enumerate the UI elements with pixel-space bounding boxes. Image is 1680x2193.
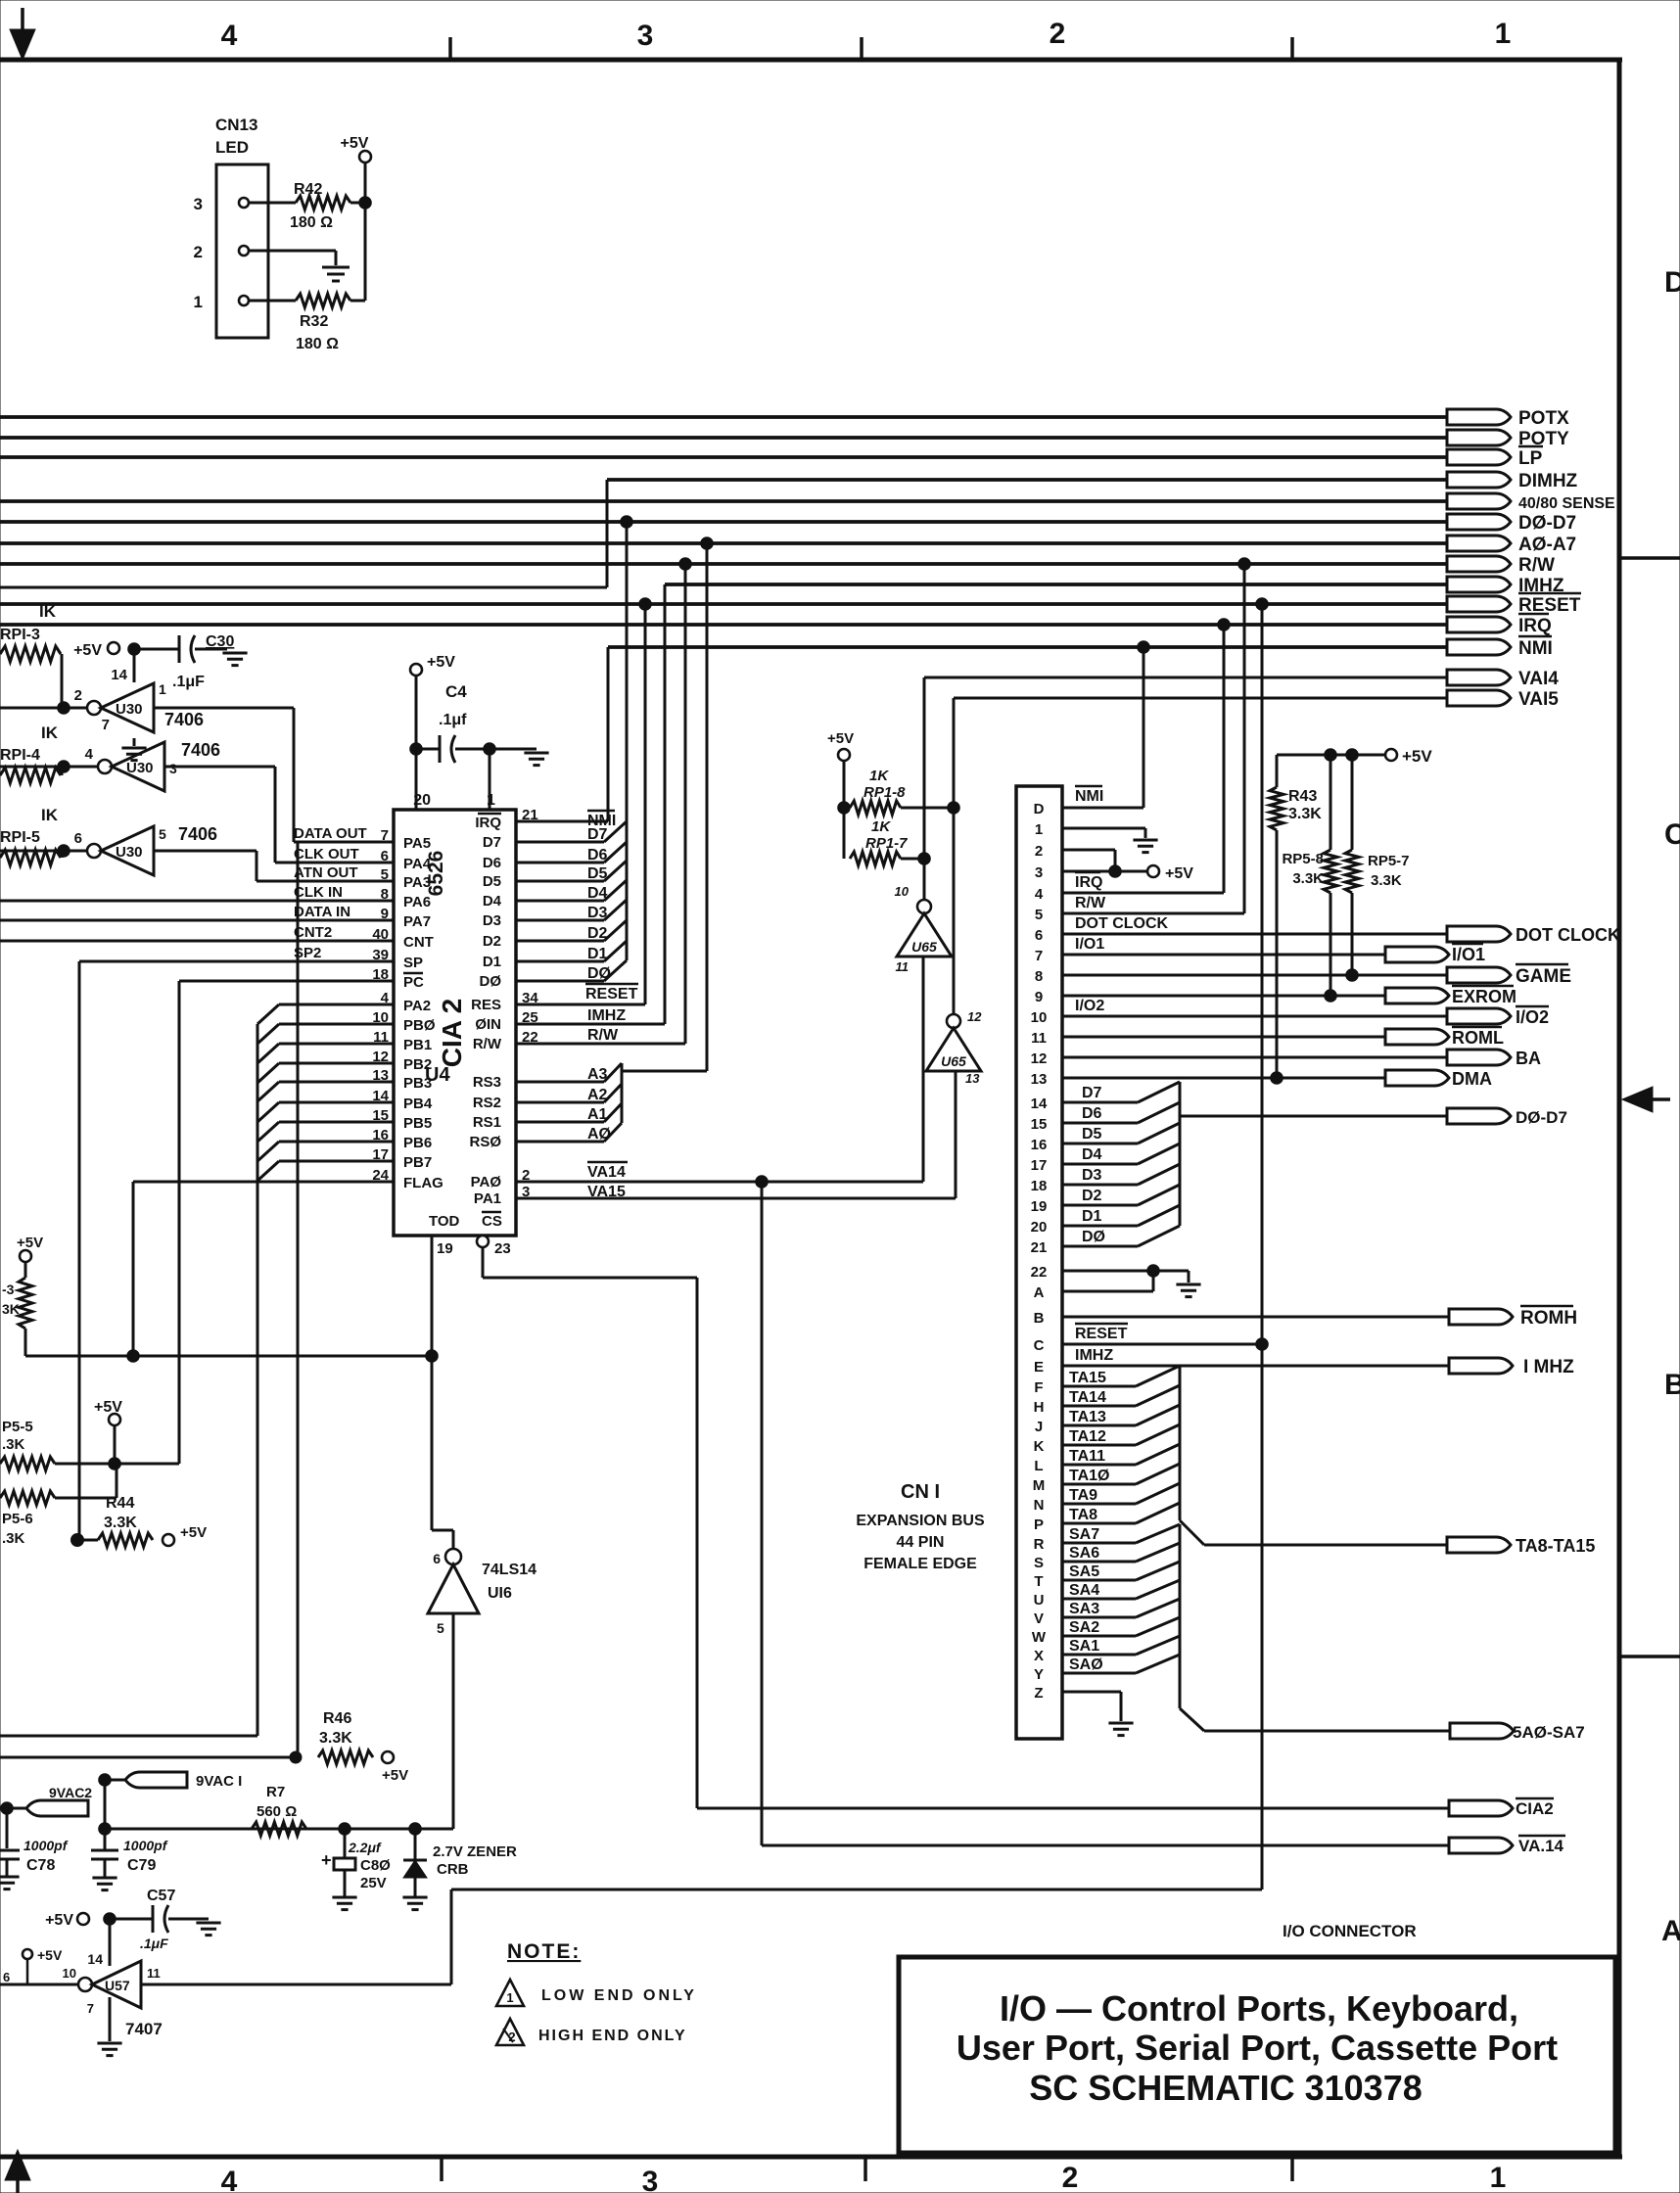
wire PB row 1126 xyxy=(279,1101,394,1104)
svg-text:TA9: TA9 xyxy=(1069,1487,1097,1504)
svg-text:RP1-8: RP1-8 xyxy=(863,784,906,801)
ground (C80) xyxy=(332,1897,356,1910)
wire CN1 SA bus vertical xyxy=(1179,1524,1182,1708)
svg-text:TA1Ø: TA1Ø xyxy=(1069,1468,1109,1484)
wire FLAG pin24 xyxy=(133,1181,394,1184)
connector arrow GAME xyxy=(1447,967,1511,983)
svg-text:CS: CS xyxy=(482,1213,502,1230)
wire R/W row xyxy=(516,1043,685,1046)
svg-text:PA2: PA2 xyxy=(403,998,431,1014)
wire PB row 1066 xyxy=(279,1043,394,1046)
resistor RP5-5 xyxy=(0,1457,55,1470)
svg-text:3.3K: 3.3K xyxy=(319,1730,352,1747)
wire CN1 D row 1126 xyxy=(1062,1101,1138,1104)
svg-text:VAI4: VAI4 xyxy=(1518,669,1559,689)
bus diagonal CN1 D7 xyxy=(1138,1082,1180,1102)
connector arrow NMI xyxy=(1447,639,1511,655)
wire RP1-5 to inverter xyxy=(61,851,64,858)
wire U30 b output xyxy=(0,766,98,769)
svg-text:RS3: RS3 xyxy=(473,1074,501,1091)
ground (C4) xyxy=(524,753,548,766)
wire +5V down to R32 xyxy=(364,163,367,301)
wire CN1 pin 7 IO1 xyxy=(1062,954,1385,957)
wire 9VAC2 stub xyxy=(7,1807,26,1810)
svg-text:7406: 7406 xyxy=(164,710,204,729)
wire NMI bus xyxy=(608,645,1447,649)
wire CN1 pin 4 IRQ xyxy=(1062,892,1224,895)
svg-text:PA1: PA1 xyxy=(474,1190,501,1207)
resistor R46 xyxy=(318,1750,373,1764)
wire A bus vertical xyxy=(706,543,709,1071)
wire +5V to C57 xyxy=(116,1918,153,1921)
junction SP2/R44 xyxy=(71,1534,84,1547)
wire CN1 TA row 1436 xyxy=(1062,1405,1136,1408)
connector arrow DIMHZ xyxy=(1447,472,1511,488)
wire C4 ground stem xyxy=(490,748,537,751)
junction RP1-8/VA15 xyxy=(948,802,960,815)
wire NMI vertical (CIA pin21) xyxy=(607,647,610,821)
power +5V (C4) xyxy=(410,664,422,676)
wire CN1 D row 1252 xyxy=(1062,1225,1138,1228)
wire CLK OUT xyxy=(275,862,394,864)
wire CN1 pin Z xyxy=(1062,1691,1121,1694)
wire RP5-7 top xyxy=(1351,755,1354,850)
wire PB row 1046 xyxy=(279,1023,394,1026)
svg-text:TA13: TA13 xyxy=(1069,1409,1106,1425)
svg-text:1: 1 xyxy=(506,1990,513,2005)
svg-text:+5V: +5V xyxy=(427,654,455,671)
svg-text:D7: D7 xyxy=(483,834,501,851)
wire CN1 D row 1273 xyxy=(1062,1245,1138,1248)
svg-text:4: 4 xyxy=(221,2166,238,2193)
junction R/W/CN1 xyxy=(1238,558,1251,571)
svg-text:5AØ-SA7: 5AØ-SA7 xyxy=(1513,1723,1585,1742)
connector arrow ROMH xyxy=(1449,1309,1513,1325)
ground (CN1 22/A) xyxy=(1176,1284,1200,1297)
wire RP5-8 bottom xyxy=(1330,893,1332,996)
bus diagonal CN1 TA13 xyxy=(1136,1405,1180,1425)
svg-text:CLK IN: CLK IN xyxy=(294,884,343,901)
svg-text:ROMH: ROMH xyxy=(1520,1308,1577,1329)
power +5V (R46) xyxy=(382,1751,394,1763)
svg-text:+5V: +5V xyxy=(341,135,369,152)
wire IRQ to CN1 xyxy=(1223,625,1226,893)
connector arrow DMA xyxy=(1385,1070,1449,1086)
junction D bus xyxy=(621,516,633,529)
wire RESET to CN1 xyxy=(1261,604,1264,1890)
wire VA14 riser xyxy=(923,677,926,900)
svg-text:TA15: TA15 xyxy=(1069,1370,1106,1386)
wire CN1 TA row 1476 xyxy=(1062,1444,1136,1447)
svg-text:K: K xyxy=(1034,1438,1045,1455)
wire pin1 vertical xyxy=(489,749,491,810)
wire U57 pin14 xyxy=(109,1919,112,1966)
wire TOD jog xyxy=(432,1529,453,1532)
svg-text:PB1: PB1 xyxy=(403,1037,432,1053)
bus diagonal CN1 D3 xyxy=(1138,1164,1180,1185)
svg-text:I/O2: I/O2 xyxy=(1075,998,1104,1014)
wire R44 left xyxy=(77,1539,98,1542)
svg-text:D5: D5 xyxy=(483,873,501,890)
svg-text:R43: R43 xyxy=(1288,788,1317,805)
bus entry diagonal 1046 xyxy=(257,1024,279,1044)
svg-text:4: 4 xyxy=(1035,886,1044,903)
capacitor C57 xyxy=(152,1905,155,1933)
bus diagonal CN1 SA7 xyxy=(1136,1524,1180,1543)
svg-text:DMA: DMA xyxy=(1452,1069,1492,1089)
svg-text:C79: C79 xyxy=(127,1857,156,1874)
wire C30 to ground xyxy=(195,648,227,651)
wire NMI to CN1 xyxy=(1143,647,1145,808)
wire U16 input xyxy=(452,1613,455,1829)
svg-text:1: 1 xyxy=(1035,821,1043,838)
frame tick bottom 4/3 xyxy=(440,2157,443,2181)
wire CN1 SA row 1576 xyxy=(1062,1542,1136,1545)
wire CN1 TA row 1516 xyxy=(1062,1483,1136,1486)
bus entry diagonal 1126 xyxy=(257,1102,279,1122)
frame tick top 3/2 xyxy=(860,37,863,60)
junction C4 right xyxy=(484,743,496,756)
connector arrow VA15 xyxy=(1447,690,1511,706)
wire CN1 D row 1147 xyxy=(1062,1122,1138,1125)
svg-text:18: 18 xyxy=(1031,1178,1048,1194)
inverter U65a bubble xyxy=(917,900,931,913)
bus diagonal CN1 SAØ xyxy=(1136,1655,1180,1673)
wire AØ row xyxy=(516,1141,604,1143)
wire R/W bus xyxy=(0,562,1447,566)
svg-text:DATA IN: DATA IN xyxy=(294,904,350,920)
svg-text:D2: D2 xyxy=(1082,1188,1102,1204)
svg-text:3: 3 xyxy=(169,761,177,776)
resistor RP1-3 xyxy=(0,646,61,662)
ground (CN1 pin1) xyxy=(1133,840,1157,853)
svg-text:PBØ: PBØ xyxy=(403,1017,436,1034)
wire CN1 SA row 1614 xyxy=(1062,1579,1136,1582)
svg-text:21: 21 xyxy=(1031,1239,1048,1256)
junction C80 xyxy=(339,1823,351,1836)
junction IRQ/CN1 xyxy=(1218,619,1231,631)
wire CN1 TA row 1536 xyxy=(1062,1503,1136,1506)
svg-text:DIMHZ: DIMHZ xyxy=(1518,471,1578,491)
svg-text:User Port, Serial Port, Casset: User Port, Serial Port, Cassette Port xyxy=(957,2028,1558,2068)
svg-text:PB5: PB5 xyxy=(403,1115,432,1132)
wire RP5-5 row xyxy=(55,1463,179,1466)
power +5V (R44) xyxy=(163,1534,174,1546)
svg-text:4: 4 xyxy=(85,746,94,763)
svg-text:CN I: CN I xyxy=(901,1481,940,1503)
svg-text:PA4: PA4 xyxy=(403,856,432,872)
capacitor C78 xyxy=(0,1849,20,1852)
svg-text:40/80 SENSE: 40/80 SENSE xyxy=(1518,495,1615,512)
U4 pin23 circle xyxy=(477,1236,489,1247)
svg-text:RES: RES xyxy=(471,997,501,1013)
svg-text:C: C xyxy=(1664,818,1680,851)
svg-text:SAØ: SAØ xyxy=(1069,1656,1103,1673)
wire PB row 1086 xyxy=(279,1062,394,1065)
svg-text:R42: R42 xyxy=(294,181,322,198)
svg-text:10: 10 xyxy=(63,1966,76,1981)
IC U4 CIA2 body xyxy=(394,810,516,1236)
svg-text:DOT CLOCK: DOT CLOCK xyxy=(1075,915,1169,932)
junction U57 power xyxy=(104,1913,117,1926)
svg-text:180 Ω: 180 Ω xyxy=(296,336,339,352)
svg-text:3.3K: 3.3K xyxy=(104,1515,137,1531)
bus diagonal CN1 SA4 xyxy=(1136,1580,1180,1599)
svg-text:2: 2 xyxy=(194,243,203,261)
svg-text:14: 14 xyxy=(111,667,127,683)
connector arrow CIA2 xyxy=(1449,1800,1513,1816)
bus diagonal D3 xyxy=(604,900,627,920)
svg-text:RS1: RS1 xyxy=(473,1114,501,1131)
wire POTX bus xyxy=(0,415,1447,419)
svg-text:.1μF: .1μF xyxy=(172,674,205,690)
connector arrow D0-D7 xyxy=(1447,1108,1511,1124)
wire DIMHZ bus xyxy=(607,478,1447,482)
svg-text:R/W: R/W xyxy=(1075,895,1106,911)
svg-text:CNT: CNT xyxy=(403,934,434,951)
svg-text:3.3K: 3.3K xyxy=(1371,872,1402,889)
wire CN13 pin3 to R42 xyxy=(249,202,296,205)
svg-text:9: 9 xyxy=(1035,989,1043,1005)
bus entry diagonal 1186 xyxy=(257,1161,279,1181)
power +5V (RP1-8) xyxy=(838,749,850,761)
frame tick bottom 3/2 xyxy=(863,2157,867,2181)
wire U30 c output xyxy=(0,850,87,853)
svg-text:IMHZ: IMHZ xyxy=(587,1007,626,1024)
svg-text:M: M xyxy=(1033,1477,1046,1494)
wire RP5-5 +5V xyxy=(114,1425,117,1464)
bus diagonal CN1 TA8 xyxy=(1136,1503,1180,1523)
svg-text:IMHZ: IMHZ xyxy=(1075,1347,1113,1364)
svg-text:RPI-3: RPI-3 xyxy=(0,627,40,643)
wire U30 a output xyxy=(0,707,87,710)
svg-text:1000pf: 1000pf xyxy=(123,1838,168,1853)
connector arrow BA xyxy=(1447,1050,1511,1065)
wire CN1 SA row 1652 xyxy=(1062,1616,1136,1619)
wire D2 row xyxy=(516,940,604,943)
svg-text:SC SCHEMATIC 310378: SC SCHEMATIC 310378 xyxy=(1029,2068,1422,2108)
capacitor C30 xyxy=(178,635,181,663)
svg-text:NMI: NMI xyxy=(1518,638,1553,659)
svg-text:12: 12 xyxy=(967,1009,982,1024)
svg-text:D5: D5 xyxy=(1082,1126,1102,1143)
svg-text:D4: D4 xyxy=(1082,1146,1102,1163)
wire CN1 pin 13 DMA xyxy=(1062,1077,1385,1080)
svg-text:PC: PC xyxy=(403,974,424,991)
svg-text:A: A xyxy=(1034,1284,1045,1301)
svg-text:D7: D7 xyxy=(1082,1085,1102,1101)
power +5V (U57) xyxy=(77,1913,89,1925)
svg-text:RP5-7: RP5-7 xyxy=(1368,853,1410,869)
svg-text:.3K: .3K xyxy=(2,1436,25,1453)
svg-text:CLK OUT: CLK OUT xyxy=(294,846,359,863)
wire C57 to ground xyxy=(168,1918,209,1921)
svg-text:SA6: SA6 xyxy=(1069,1545,1099,1562)
svg-text:R7: R7 xyxy=(266,1784,285,1800)
svg-text:C57: C57 xyxy=(147,1888,175,1904)
wire CN1 pin 3 xyxy=(1062,870,1147,873)
svg-text:LOW END ONLY: LOW END ONLY xyxy=(541,1987,697,2004)
resistor R42 xyxy=(296,196,350,210)
bus diagonal CN1 D5 xyxy=(1138,1123,1180,1143)
resistor R44 xyxy=(98,1533,153,1547)
svg-text:44 PIN: 44 PIN xyxy=(897,1534,945,1551)
wire IRQ bus xyxy=(0,623,1447,627)
svg-text:6: 6 xyxy=(433,1551,441,1566)
wire DATA OUT xyxy=(294,841,394,844)
wire 1MHZ vertical xyxy=(664,584,667,1024)
ground (U57) xyxy=(97,2043,121,2056)
svg-text:74LS14: 74LS14 xyxy=(482,1562,537,1578)
svg-text:11: 11 xyxy=(147,1966,161,1981)
warning triangle 2 xyxy=(496,2019,524,2045)
junction rail/RP5-7 xyxy=(1346,749,1359,762)
svg-text:14: 14 xyxy=(87,1951,103,1967)
svg-text:R/W: R/W xyxy=(473,1036,502,1052)
junction RP1-7/VA14 xyxy=(918,853,931,865)
bus diagonal CN1 TA14 xyxy=(1136,1385,1180,1406)
svg-text:D4: D4 xyxy=(483,893,502,910)
svg-text:TA14: TA14 xyxy=(1069,1389,1106,1406)
svg-text:AØ-A7: AØ-A7 xyxy=(1518,535,1576,555)
junction U30 c output xyxy=(58,845,70,858)
wire SP2 vertical xyxy=(78,961,81,1540)
junction RP1-8 left xyxy=(838,802,851,815)
svg-text:TA11: TA11 xyxy=(1069,1448,1105,1465)
svg-text:25V: 25V xyxy=(360,1875,387,1891)
connector arrow POTY xyxy=(1447,430,1511,445)
wire CN1 pin 8 GAME xyxy=(1062,974,1447,977)
wire CN1 TA row 1416 xyxy=(1062,1385,1136,1388)
junction U30 a output xyxy=(58,702,70,715)
svg-text:PB4: PB4 xyxy=(403,1096,433,1112)
wire VA15 riser xyxy=(953,698,956,1014)
ground (C30) xyxy=(222,653,247,666)
svg-text:+5V: +5V xyxy=(45,1912,73,1929)
junction 9VAC2 xyxy=(1,1802,14,1815)
wire RP5-7 bottom xyxy=(1351,893,1354,975)
wire A1 row xyxy=(516,1121,604,1124)
svg-text:5: 5 xyxy=(1035,907,1043,923)
wire CN1 pin 6 DOTCLK xyxy=(1062,933,1447,936)
connector arrow VA.14 xyxy=(1449,1838,1513,1853)
frame tick top 2/1 xyxy=(1290,37,1294,60)
svg-text:C30: C30 xyxy=(206,633,234,650)
bus diagonal CN1 TA1Ø xyxy=(1136,1464,1180,1484)
connector arrow D0-D7 bus xyxy=(1447,514,1511,530)
svg-text:ØIN: ØIN xyxy=(475,1016,501,1033)
svg-text:IRQ: IRQ xyxy=(1075,874,1102,891)
svg-text:R/W: R/W xyxy=(1518,555,1555,576)
svg-text:-3: -3 xyxy=(2,1282,15,1297)
svg-text:1: 1 xyxy=(1490,2162,1507,2193)
svg-text:SA3: SA3 xyxy=(1069,1601,1099,1617)
wire PB row 1166 xyxy=(279,1141,394,1143)
frame tick bottom 2/1 xyxy=(1290,2157,1294,2181)
svg-text:IRQ: IRQ xyxy=(1518,616,1552,636)
wire D0-D7 bus bus xyxy=(0,520,1447,524)
svg-text:1: 1 xyxy=(194,293,203,311)
wire 1MHZ row xyxy=(516,1023,665,1026)
bus entry diagonal 1086 xyxy=(257,1063,279,1083)
bus diagonal CN1 SA5 xyxy=(1136,1562,1180,1580)
wire CN1 pin 11 ROML xyxy=(1062,1036,1385,1039)
wire PA1 row xyxy=(516,1197,956,1200)
wire CIA2 line xyxy=(697,1807,1449,1810)
svg-text:3: 3 xyxy=(637,20,654,52)
svg-text:PB3: PB3 xyxy=(403,1075,432,1092)
svg-text:RPI-4: RPI-4 xyxy=(0,747,40,764)
wire A3 row xyxy=(516,1081,604,1084)
wire SP2 xyxy=(79,960,394,963)
bus diagonal CN1 TA12 xyxy=(1136,1424,1180,1445)
wire U16 out riser xyxy=(452,1530,455,1549)
connector arrow ROML xyxy=(1385,1029,1449,1045)
wire PA0 row xyxy=(516,1181,923,1184)
svg-text:NMI: NMI xyxy=(1075,788,1103,805)
wire CIA2 vertical xyxy=(696,1278,699,1808)
svg-text:GAME: GAME xyxy=(1516,966,1571,987)
junction EXROM/RP5-8 xyxy=(1325,990,1337,1003)
svg-text:EXPANSION BUS: EXPANSION BUS xyxy=(856,1513,985,1529)
bus diagonal CN1 DØ xyxy=(1138,1226,1180,1246)
inverter U30 c body xyxy=(101,826,154,875)
wire +5V rail (R43) xyxy=(1277,754,1385,757)
svg-text:I/O1: I/O1 xyxy=(1452,945,1485,964)
svg-text:L: L xyxy=(1034,1458,1043,1474)
capacitor C80 xyxy=(344,1829,347,1858)
wire R32 to +5V xyxy=(350,300,365,303)
svg-text:EXROM: EXROM xyxy=(1452,987,1517,1006)
wire +5V stub xyxy=(26,1959,29,1984)
wire RP5-3 bottom xyxy=(24,1329,27,1356)
svg-text:16: 16 xyxy=(1031,1137,1048,1153)
ground (U30a) xyxy=(121,748,146,761)
svg-text:2: 2 xyxy=(508,2030,515,2044)
wire U57 output xyxy=(141,1983,451,1986)
wire D7 row xyxy=(516,841,604,844)
wire RP1-8 to VA15 net xyxy=(901,807,954,810)
svg-text:CIA2: CIA2 xyxy=(1516,1799,1554,1818)
svg-text:6: 6 xyxy=(3,1970,10,1984)
svg-text:12: 12 xyxy=(1031,1050,1048,1067)
bus diagonal CN1 SA6 xyxy=(1136,1543,1180,1562)
svg-text:I/O1: I/O1 xyxy=(1075,936,1104,953)
svg-text:NOTE:: NOTE: xyxy=(507,1940,581,1963)
svg-text:P5-5: P5-5 xyxy=(2,1419,33,1435)
wire pin22 gnd stub xyxy=(1153,1270,1189,1273)
connector CN13 body xyxy=(216,164,268,338)
svg-text:IK: IK xyxy=(41,806,59,824)
border frame right xyxy=(1617,60,1622,2157)
bus diagonal CN1 SA2 xyxy=(1136,1617,1180,1636)
svg-text:+5V: +5V xyxy=(827,730,854,747)
svg-text:I/O — Control Ports, Keyboard,: I/O — Control Ports, Keyboard, xyxy=(1000,1988,1518,2029)
svg-text:RP1-7: RP1-7 xyxy=(865,835,908,852)
wire RP5-3 top xyxy=(24,1262,27,1278)
svg-text:7: 7 xyxy=(102,717,110,733)
wire DIMHZ feed xyxy=(0,586,607,589)
connector arrow DOT CLOCK xyxy=(1447,926,1511,942)
wire FLAG vertical xyxy=(132,1182,135,1356)
wire pin19 vertical xyxy=(431,1236,434,1530)
svg-text:D1: D1 xyxy=(1082,1208,1102,1225)
wire D5 row xyxy=(516,880,604,883)
svg-text:Y: Y xyxy=(1034,1666,1044,1683)
frame zone tick right B/A xyxy=(1619,1655,1680,1658)
wire PB row 1146 xyxy=(279,1121,394,1124)
wire CN1 pin A xyxy=(1062,1290,1153,1293)
